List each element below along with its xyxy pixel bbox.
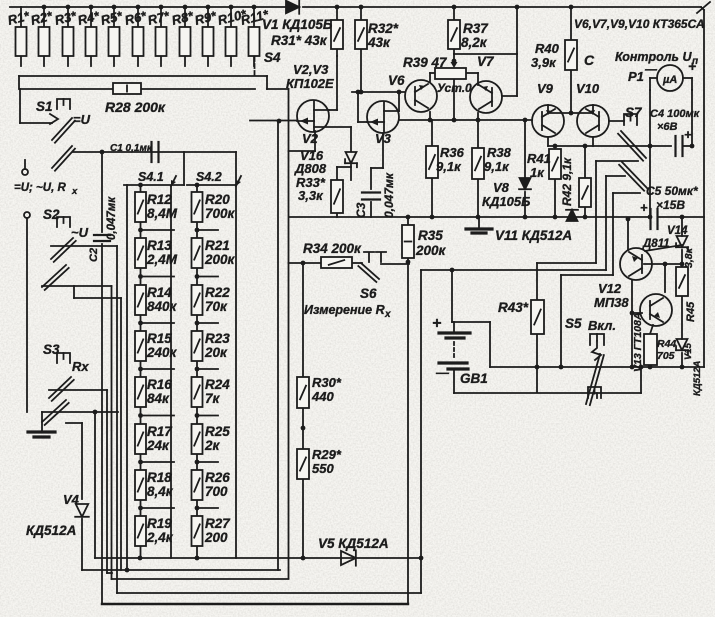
svg-text:S4.1: S4.1 [138, 170, 164, 184]
svg-text:R19: R19 [147, 516, 172, 531]
svg-text:R17: R17 [147, 424, 173, 439]
svg-text:R25: R25 [205, 424, 230, 439]
svg-text:70к: 70к [205, 299, 228, 314]
svg-text:2,4М: 2,4М [146, 252, 178, 267]
svg-text:700: 700 [205, 484, 228, 499]
svg-text:Контроль U: Контроль U [615, 50, 692, 64]
svg-text:V6: V6 [388, 73, 405, 88]
svg-text:Измерение R: Измерение R [304, 303, 385, 317]
svg-text:550: 550 [312, 461, 334, 476]
svg-text:~U: ~U [71, 225, 89, 240]
svg-text:200к: 200к [204, 252, 236, 267]
svg-text:0,047мк: 0,047мк [382, 172, 396, 218]
svg-text:9,1к: 9,1к [436, 159, 462, 174]
svg-text:=U: =U [73, 112, 91, 127]
svg-text:S2: S2 [43, 207, 60, 222]
svg-text:V4: V4 [63, 492, 80, 507]
svg-text:43к: 43к [367, 35, 391, 50]
svg-text:V10: V10 [576, 81, 600, 96]
svg-text:+: + [432, 315, 441, 332]
svg-text:3,8к: 3,8к [683, 247, 695, 268]
svg-text:C2: C2 [88, 248, 100, 262]
svg-text:R35: R35 [418, 228, 443, 243]
svg-text:+: + [640, 200, 648, 215]
svg-text:х: х [71, 186, 78, 197]
svg-text:24к: 24к [146, 438, 170, 453]
svg-text:1к: 1к [530, 165, 545, 180]
svg-text:Д811: Д811 [642, 238, 670, 250]
svg-text:P1: P1 [628, 69, 644, 84]
svg-text:КД105Б: КД105Б [482, 194, 530, 209]
svg-text:R30*: R30* [312, 375, 342, 390]
svg-text:R38: R38 [487, 145, 512, 160]
svg-text:R36: R36 [440, 145, 465, 160]
svg-text:R28 200к: R28 200к [105, 99, 166, 115]
svg-text:КД512А: КД512А [26, 523, 76, 538]
svg-text:V12: V12 [598, 281, 622, 296]
svg-text:R42 9,1к: R42 9,1к [560, 157, 574, 206]
svg-text:Уст.0: Уст.0 [437, 81, 472, 95]
svg-text:—: — [435, 365, 450, 380]
svg-text:Вкл.: Вкл. [588, 318, 616, 333]
svg-text:3,3к: 3,3к [298, 188, 324, 203]
svg-text:20к: 20к [204, 345, 228, 360]
svg-text:МП38: МП38 [594, 295, 629, 310]
svg-text:700к: 700к [205, 206, 236, 221]
svg-text:C: C [584, 52, 595, 68]
svg-text:0,047мк: 0,047мк [106, 196, 118, 240]
svg-text:C1 0,1мк: C1 0,1мк [110, 143, 153, 154]
svg-text:R43*: R43* [498, 300, 529, 315]
svg-text:V15: V15 [683, 342, 694, 360]
svg-text:R31* 43к: R31* 43к [271, 33, 328, 48]
svg-text:8,2к: 8,2к [461, 35, 488, 50]
svg-text:S3: S3 [43, 342, 60, 357]
svg-text:V2,V3: V2,V3 [293, 62, 329, 77]
svg-text:R44: R44 [657, 338, 676, 350]
svg-text:R20: R20 [205, 192, 230, 207]
svg-text:C4 100мк: C4 100мк [650, 108, 701, 120]
svg-text:V2: V2 [302, 131, 319, 146]
svg-text:R29*: R29* [312, 447, 342, 462]
svg-text:R26: R26 [205, 470, 230, 485]
svg-text:440: 440 [311, 389, 334, 404]
svg-text:КП102Е: КП102Е [286, 76, 334, 91]
svg-text:R41: R41 [527, 151, 551, 166]
svg-text:×6В: ×6В [657, 121, 678, 133]
svg-text:C3: C3 [354, 202, 368, 218]
svg-text:КД512А: КД512А [692, 360, 703, 396]
svg-text:V7: V7 [477, 54, 495, 69]
svg-text:S4: S4 [264, 50, 281, 65]
svg-text:9,1к: 9,1к [484, 159, 510, 174]
svg-text:=U; ~U, R: =U; ~U, R [14, 182, 66, 194]
svg-text:R21: R21 [205, 238, 230, 253]
svg-text:V6,V7,V9,V10 КТ365СА: V6,V7,V9,V10 КТ365СА [574, 17, 705, 31]
svg-text:R12: R12 [147, 192, 172, 207]
svg-text:V13 ГТ108А: V13 ГТ108А [632, 312, 644, 372]
svg-text:R37: R37 [463, 21, 489, 36]
svg-text:GB1: GB1 [460, 371, 488, 386]
svg-text:V3: V3 [375, 131, 392, 146]
svg-text:R34 200к: R34 200к [303, 241, 362, 256]
svg-text:V14: V14 [667, 225, 688, 237]
svg-text:R24: R24 [205, 377, 230, 392]
svg-text:R13: R13 [147, 238, 172, 253]
svg-text:R18: R18 [147, 470, 172, 485]
svg-text:2к: 2к [204, 438, 221, 453]
svg-text:2,4к: 2,4к [146, 530, 174, 545]
svg-text:х: х [384, 309, 391, 320]
svg-text:C5 50мк*: C5 50мк* [646, 184, 699, 198]
svg-text:840к: 840к [147, 299, 178, 314]
svg-text:V5 КД512А: V5 КД512А [318, 536, 389, 551]
svg-text:R32*: R32* [368, 21, 399, 36]
svg-text:R40: R40 [535, 41, 560, 56]
svg-text:V1 КД105Б: V1 КД105Б [262, 17, 333, 32]
svg-text:Rх: Rх [72, 359, 89, 374]
svg-text:µА: µА [662, 74, 677, 86]
svg-text:Д808: Д808 [294, 161, 327, 176]
svg-text:×15В: ×15В [656, 198, 685, 212]
svg-text:R15: R15 [147, 331, 172, 346]
svg-text:7к: 7к [205, 391, 221, 406]
svg-text:+: + [684, 127, 692, 142]
svg-text:R22: R22 [205, 285, 230, 300]
svg-text:S5: S5 [565, 316, 582, 331]
svg-text:R39 47: R39 47 [403, 55, 448, 70]
svg-text:8,4М: 8,4М [147, 206, 178, 221]
svg-text:240к: 240к [146, 345, 178, 360]
svg-text:V11 КД512А: V11 КД512А [495, 228, 572, 243]
svg-text:R16: R16 [147, 377, 172, 392]
svg-text:8,4к: 8,4к [147, 484, 174, 499]
svg-text:84к: 84к [147, 391, 170, 406]
svg-text:R27: R27 [205, 516, 231, 531]
svg-text:S7: S7 [625, 105, 643, 120]
svg-text:V9: V9 [537, 81, 554, 96]
svg-text:200к: 200к [415, 243, 447, 258]
svg-text:S4.2: S4.2 [196, 170, 222, 184]
svg-text:R14: R14 [147, 285, 172, 300]
svg-text:200: 200 [204, 530, 228, 545]
svg-text:п: п [692, 56, 698, 67]
svg-text:S6: S6 [360, 286, 377, 301]
svg-text:R23: R23 [205, 331, 230, 346]
svg-text:3,9к: 3,9к [531, 55, 557, 70]
svg-text:S1: S1 [36, 99, 53, 114]
svg-text:705: 705 [657, 350, 675, 362]
svg-text:R45: R45 [685, 301, 697, 322]
svg-text:—: — [644, 62, 658, 76]
svg-text:V8: V8 [493, 180, 510, 195]
